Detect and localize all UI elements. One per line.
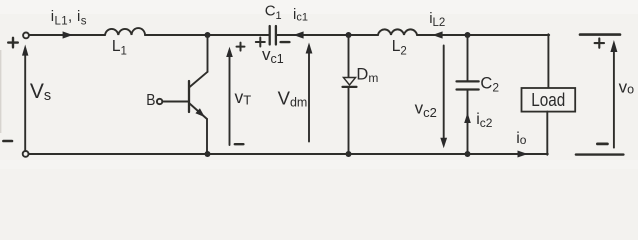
vc2 annotation arrow xyxy=(440,46,447,149)
label L2 xyxy=(392,38,407,58)
node B: base terminal xyxy=(157,99,188,104)
current arrow iL2 xyxy=(432,31,442,38)
diode Dm xyxy=(343,35,357,154)
source Vs annotation arrow xyxy=(22,45,28,151)
vo annotation arrow xyxy=(610,40,617,148)
label Vdm xyxy=(278,87,308,109)
wire: top rail, L2 to load corner xyxy=(417,34,549,36)
transistor (BJT power switch) xyxy=(189,35,208,154)
label vc2 xyxy=(415,98,437,120)
vT annotation arrow xyxy=(226,47,233,145)
label ic2 xyxy=(476,111,493,130)
capacitor C1 xyxy=(270,26,276,45)
label C1 xyxy=(265,3,282,22)
label: - (source negative) xyxy=(3,140,12,143)
current arrow ic1 xyxy=(293,31,303,38)
junction: C2 node (bottom) xyxy=(465,151,471,157)
label Vs xyxy=(30,80,51,104)
label Load xyxy=(531,89,565,110)
current arrow iL1/is xyxy=(63,31,73,38)
node: output + terminal bar xyxy=(580,33,620,36)
node: source + terminal (open circle) xyxy=(23,33,29,39)
label vT xyxy=(235,87,252,108)
Vdm annotation arrow xyxy=(306,43,313,142)
junction: collector node (top) xyxy=(205,32,211,38)
label: + (output) xyxy=(595,38,604,47)
label: - (C1 right) xyxy=(281,41,290,43)
load resistor box xyxy=(522,34,576,155)
label: + (vT top) xyxy=(237,43,245,51)
label iL1, is xyxy=(51,8,87,27)
label ic1 xyxy=(293,6,308,24)
current arrow ic2 xyxy=(464,113,471,124)
current arrow io xyxy=(518,151,528,158)
junction: C2 node (top) xyxy=(465,32,471,38)
label B xyxy=(146,92,155,109)
node: source - terminal (open circle) xyxy=(23,151,29,157)
svg-text:io: io xyxy=(516,130,527,147)
label C2 xyxy=(480,75,499,95)
inductor L1 xyxy=(105,28,145,35)
label: - (vT bottom) xyxy=(235,143,244,145)
label: - (output) xyxy=(597,142,607,145)
wire: bottom rail xyxy=(28,153,547,155)
junction: diode node (top) xyxy=(346,32,352,38)
wire: top rail, + terminal to L1 xyxy=(29,34,105,36)
inductor L2 xyxy=(378,29,417,35)
label iL2 xyxy=(429,10,445,29)
wire: top rail, C1 right plate to L2 xyxy=(277,34,378,36)
label: + (source positive) xyxy=(8,38,18,48)
svg-text:B: B xyxy=(146,92,155,109)
capacitor C2 xyxy=(457,35,479,154)
label io xyxy=(516,130,527,147)
label L1 xyxy=(112,38,127,58)
label vc1 xyxy=(262,45,284,66)
junction: emitter node (bottom) xyxy=(205,151,211,157)
wire: top rail, L1 to C1 left plate xyxy=(145,34,269,36)
label vo xyxy=(619,78,635,97)
svg-text:Load: Load xyxy=(531,89,565,110)
node: output - terminal bar xyxy=(576,153,624,155)
junction: diode node (bottom) xyxy=(346,151,352,157)
label: + (C1 left) xyxy=(256,38,265,47)
label Dm xyxy=(356,66,378,86)
